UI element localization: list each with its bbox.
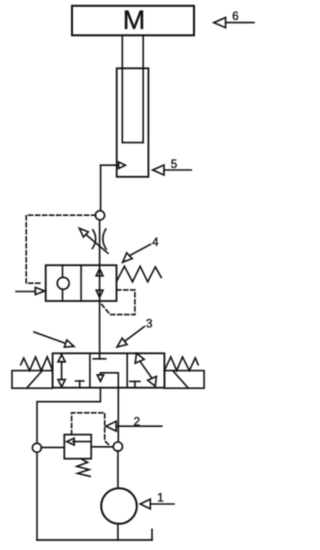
centre cell bypass path <box>100 373 118 388</box>
mass M box <box>72 6 194 36</box>
node B junction circle <box>32 443 41 452</box>
directional valve 3 body <box>53 353 165 387</box>
svg-text:5: 5 <box>171 159 177 171</box>
cylinder 5 barrel <box>117 68 149 177</box>
label 6 arrow <box>214 18 254 28</box>
left centering spring <box>21 357 53 371</box>
wire cylinder to node A <box>100 165 102 211</box>
flow control valve 4 body <box>46 265 117 301</box>
tank line <box>37 539 152 541</box>
wire node B to relief valve <box>41 446 64 448</box>
wire pump to tank line <box>117 524 119 540</box>
compensator spring <box>117 266 162 282</box>
label 3 arrow <box>117 327 145 348</box>
wire valve pump port to node C <box>117 388 119 443</box>
orifice circle <box>57 277 69 289</box>
wire relief valve to node C <box>91 446 114 448</box>
wire node C to pump <box>117 451 119 489</box>
right solenoid box <box>164 371 204 389</box>
right cell diagonal path <box>135 353 156 386</box>
pointer arrow at valve left <box>34 332 74 347</box>
wire node A to valve 3 <box>99 220 101 353</box>
left cell double arrow <box>58 355 65 387</box>
wire valve tank port to left riser <box>37 388 100 444</box>
relief valve spring <box>77 459 90 477</box>
pump 1 circle <box>101 488 137 524</box>
left solenoid box <box>12 371 53 389</box>
pilot dashed line right <box>102 290 135 315</box>
node C junction circle <box>113 442 122 451</box>
compensator cell arrows <box>96 269 103 276</box>
label 1 arrow <box>140 499 174 509</box>
throttle adjust arrow <box>79 228 108 253</box>
svg-text:4: 4 <box>152 237 159 249</box>
throttle valve arcs <box>92 230 95 249</box>
pilot dashed line left loop <box>26 215 95 283</box>
relief valve arrow <box>73 441 91 443</box>
relief valve pilot dashed <box>72 413 111 446</box>
label 2 arrow <box>106 421 162 431</box>
svg-text:1: 1 <box>157 492 163 504</box>
pilot arrow into compensator <box>16 287 45 294</box>
right cell blocked port T <box>130 380 140 382</box>
left cell blocked port T <box>76 380 84 382</box>
svg-text:2: 2 <box>134 416 140 428</box>
svg-text:6: 6 <box>232 11 238 23</box>
wire below node B to tank <box>36 452 38 540</box>
orifice cell line <box>62 265 64 301</box>
node A junction circle <box>95 211 104 220</box>
label 4 arrow <box>123 244 151 262</box>
svg-text:3: 3 <box>146 319 152 331</box>
piston rod <box>121 35 123 142</box>
relief valve 2 body <box>64 435 91 459</box>
centre cell blocked port T <box>99 353 101 359</box>
label 5 arrow <box>153 165 192 175</box>
cylinder port arrow <box>101 162 126 169</box>
svg-text:M: M <box>123 5 146 35</box>
right centering spring <box>164 357 198 371</box>
piston face <box>122 142 143 144</box>
